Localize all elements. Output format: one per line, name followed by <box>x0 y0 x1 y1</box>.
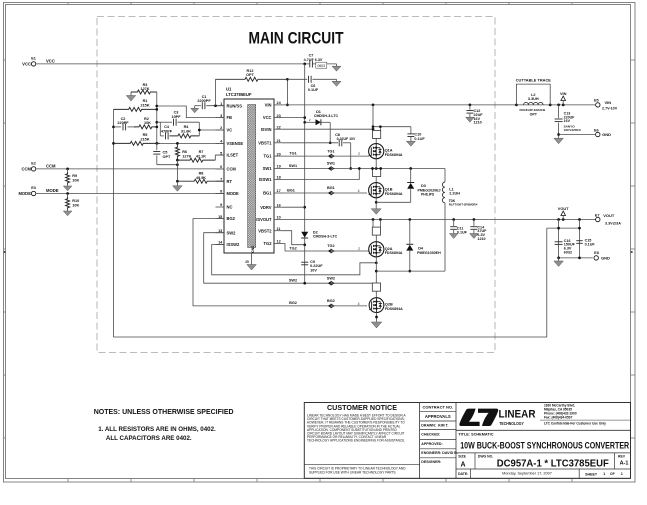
svg-text:2: 2 <box>358 152 360 156</box>
svg-text:VDRV: VDRV <box>260 205 272 210</box>
svg-text:10K: 10K <box>144 121 151 125</box>
ground U1 pin 25 exposed pad <box>245 253 256 270</box>
svg-text:CCM: CCM <box>46 164 56 169</box>
resistor R9 10K <box>66 169 80 185</box>
svg-text:SW2: SW2 <box>327 276 335 280</box>
capacitor C3 10PF <box>171 111 181 126</box>
svg-text:CUTTABLE TRACE: CUTTABLE TRACE <box>516 78 552 83</box>
node E3 MODE terminal <box>18 186 58 196</box>
resistor R12 OPT <box>216 69 288 82</box>
capacitor C16 150UF <box>555 239 576 255</box>
svg-text:VIN: VIN <box>265 103 272 108</box>
svg-text:21: 21 <box>277 139 281 143</box>
svg-text:ENGINEER: DAVID B.: ENGINEER: DAVID B. <box>421 451 457 455</box>
svg-text:VBST2: VBST2 <box>258 228 272 233</box>
svg-text:TG2: TG2 <box>327 244 334 248</box>
wire R6 C5 junction <box>176 159 179 181</box>
svg-text:BG1: BG1 <box>263 191 272 196</box>
transistor Q1A FDS6894A <box>369 138 403 158</box>
svg-text:LTC3785EUF: LTC3785EUF <box>226 92 252 97</box>
svg-text:E7: E7 <box>595 213 600 217</box>
svg-text:19: 19 <box>277 165 281 169</box>
svg-text:10V: 10V <box>310 268 317 272</box>
node SW1 flag <box>328 167 334 171</box>
svg-text:E2: E2 <box>31 161 36 165</box>
resistor R4 31.6K <box>170 125 200 138</box>
svg-text:FDS6894A: FDS6894A <box>385 251 403 255</box>
ground below R10 <box>63 210 72 216</box>
capacitor C8 0.22UF 10V <box>335 133 356 146</box>
svg-text:LTC Confidential-For Customer: LTC Confidential-For Customer Use Only <box>544 421 606 425</box>
svg-text:10K: 10K <box>72 204 79 208</box>
svg-text:VBST1: VBST1 <box>258 140 272 145</box>
svg-text:2: 2 <box>358 247 360 251</box>
svg-text:Fax: (408)434-0507: Fax: (408)434-0507 <box>544 416 573 420</box>
wire BG2 net <box>193 219 367 306</box>
svg-text:SW2: SW2 <box>227 230 237 235</box>
svg-text:SW1: SW1 <box>327 162 335 166</box>
svg-text:VIN: VIN <box>605 100 612 105</box>
svg-text:Monday, September 17, 2007: Monday, September 17, 2007 <box>502 472 552 476</box>
transistor Q1A package box <box>373 130 381 138</box>
svg-text:C2: C2 <box>121 117 126 121</box>
svg-text:25: 25 <box>245 260 249 264</box>
node E7 VOUT terminal <box>595 213 621 226</box>
svg-text:18: 18 <box>277 176 281 180</box>
ground below C14 <box>470 234 479 239</box>
svg-text:C6: C6 <box>311 84 316 88</box>
svg-text:RUN/SS: RUN/SS <box>227 103 243 108</box>
svg-text:8: 8 <box>220 190 222 194</box>
svg-text:C5: C5 <box>163 151 168 155</box>
wire compensation loop <box>157 122 200 136</box>
svg-text:215K: 215K <box>140 138 149 142</box>
svg-text:GND: GND <box>251 245 255 253</box>
svg-text:VC: VC <box>227 128 233 133</box>
svg-text:E8: E8 <box>594 251 599 255</box>
transistor Q2A FDS6894A <box>369 235 403 257</box>
svg-text:BG1: BG1 <box>327 186 335 190</box>
svg-text:BG1: BG1 <box>287 188 295 192</box>
node BG1 flag <box>328 191 334 195</box>
svg-text:13: 13 <box>218 229 222 233</box>
ground below C12 <box>466 117 475 122</box>
svg-text:E6: E6 <box>594 128 599 132</box>
svg-text:GND: GND <box>601 256 610 261</box>
resistor R5 215K <box>114 133 161 145</box>
svg-text:0.1UF: 0.1UF <box>457 231 468 235</box>
svg-text:MODE: MODE <box>18 191 31 196</box>
svg-text:REV: REV <box>618 455 626 459</box>
svg-text:5: 5 <box>220 151 222 155</box>
svg-text:BG2: BG2 <box>327 299 335 303</box>
svg-text:OPT: OPT <box>246 73 254 77</box>
resistor R6 127K <box>175 143 191 160</box>
svg-text:R10: R10 <box>72 199 79 203</box>
svg-text:R6: R6 <box>182 150 187 154</box>
capacitor C1 2200PF <box>195 95 224 109</box>
svg-text:MAIN CIRCUIT: MAIN CIRCUIT <box>249 30 344 48</box>
svg-text:BG2: BG2 <box>289 301 297 305</box>
wire VOUT feedback loop <box>114 228 547 337</box>
wire feedback bus x113.5 <box>112 109 115 337</box>
svg-text:0.1UF: 0.1UF <box>308 88 319 92</box>
svg-text:ALL CAPACITORS ARE 0402.: ALL CAPACITORS ARE 0402. <box>106 435 192 442</box>
capacitor C2 220PF <box>114 117 137 131</box>
svg-text:10K: 10K <box>72 179 79 183</box>
svg-text:E3: E3 <box>31 186 36 190</box>
capacitor C9 0.22UF 10V <box>301 260 323 272</box>
svg-text:DC957A-1 * LTC3785EUF: DC957A-1 * LTC3785EUF <box>497 458 610 470</box>
wire SW2 to L1 <box>376 270 445 272</box>
linear technology logo cell <box>459 403 630 426</box>
ground after C7 <box>332 64 341 71</box>
svg-text:MODE: MODE <box>46 188 59 193</box>
svg-text:SHEET: SHEET <box>585 472 598 476</box>
svg-text:L2: L2 <box>531 93 535 97</box>
wire BG1 net <box>283 186 368 193</box>
svg-text:SUPPLIED FOR USE WITH LINEAR T: SUPPLIED FOR USE WITH LINEAR TECHNOLOGY … <box>309 470 397 474</box>
svg-text:DRAWN:: DRAWN: <box>421 424 436 428</box>
wire Q1A source to SW1 <box>375 159 377 169</box>
svg-text:R7: R7 <box>199 150 204 154</box>
svg-text:R2: R2 <box>144 117 149 121</box>
wire MODE net <box>36 192 224 195</box>
wire Q2B source <box>375 313 378 323</box>
wire TG2 net <box>283 244 370 252</box>
svg-text:U1: U1 <box>226 87 232 92</box>
node VIN terminal <box>560 91 567 105</box>
svg-text:10W BUCK-BOOST SYNCHRONOUS CON: 10W BUCK-BOOST SYNCHRONOUS CONVERTER <box>460 441 630 451</box>
svg-text:R12: R12 <box>247 69 254 73</box>
approvals cell <box>420 405 458 464</box>
wire R12 to VIN pin <box>286 78 289 106</box>
svg-text:R3: R3 <box>143 83 148 87</box>
capacitor C11 0.1UF <box>450 220 467 235</box>
svg-text:VCC: VCC <box>22 61 31 66</box>
svg-text:TG1: TG1 <box>327 149 334 153</box>
svg-text:CUSTOMER NOTICE: CUSTOMER NOTICE <box>327 403 397 412</box>
main circuit dashed boundary box <box>97 17 495 353</box>
resistor R2 10K <box>134 117 157 129</box>
resistor R1 215K <box>114 99 157 111</box>
wire TG1 net <box>283 149 370 156</box>
wire VCC rail <box>36 63 309 65</box>
svg-text:CONTRACT NO.: CONTRACT NO. <box>422 405 453 410</box>
svg-text:BG2: BG2 <box>227 216 236 221</box>
ground below C11 <box>449 234 458 239</box>
notes text <box>94 409 234 442</box>
label 0603 box <box>316 62 327 68</box>
svg-text:220PF: 220PF <box>117 121 129 125</box>
wire C16 branch <box>558 220 560 258</box>
svg-text:TG1: TG1 <box>289 151 296 155</box>
inductor L2 3.3UH <box>519 93 546 117</box>
svg-text:CHECKED:: CHECKED: <box>421 433 440 437</box>
svg-text:VSENSE: VSENSE <box>227 141 244 146</box>
svg-text:DATE:: DATE: <box>458 472 468 476</box>
svg-text:0.1UF: 0.1UF <box>585 242 596 246</box>
ground below C10 <box>406 141 415 146</box>
svg-text:RLF7030T-2R2M3R4: RLF7030T-2R2M3R4 <box>449 203 478 207</box>
ground below Q2B <box>371 322 382 328</box>
svg-text:1: 1 <box>621 472 623 476</box>
wire D1 to VBST1 <box>329 122 332 144</box>
transistor Q2B FDS6894A <box>369 291 403 312</box>
capacitor C6 0.1UF <box>287 76 336 92</box>
wire E6 link <box>559 134 595 136</box>
inductor L1 2.2UH <box>442 169 477 272</box>
svg-text:FDS6894A: FDS6894A <box>385 153 403 157</box>
svg-text:22: 22 <box>277 125 281 129</box>
svg-text:DWG NO.: DWG NO. <box>478 455 493 459</box>
svg-text:LINEAR: LINEAR <box>499 409 536 421</box>
svg-text:16: 16 <box>277 203 281 207</box>
customer notice cell <box>304 403 419 474</box>
title block grid <box>304 403 630 479</box>
svg-text:12: 12 <box>277 240 281 244</box>
transistor Q1B package box <box>371 167 382 176</box>
svg-text:11: 11 <box>277 227 281 231</box>
svg-text:20: 20 <box>277 152 281 156</box>
svg-text:470PF: 470PF <box>161 129 173 133</box>
resistor R7 42.2K <box>177 150 224 162</box>
svg-text:PMEG1030EH: PMEG1030EH <box>417 251 441 255</box>
svg-text:APPROVED:: APPROVED: <box>421 442 442 446</box>
svg-text:C1: C1 <box>202 95 207 99</box>
wire output bottom link <box>557 257 593 260</box>
svg-text:3.3V@3A: 3.3V@3A <box>605 222 621 226</box>
diode D3 PMEG2020EJ <box>376 169 440 203</box>
ground below C1 <box>191 106 199 113</box>
svg-text:215K: 215K <box>140 104 149 108</box>
node E8 GND terminal <box>594 251 610 261</box>
svg-text:4: 4 <box>358 302 360 306</box>
node VOUT terminal <box>558 206 569 220</box>
svg-text:9: 9 <box>220 203 222 207</box>
wire output top link <box>547 227 581 230</box>
wire Q1B source <box>375 198 378 209</box>
diode D2 CMDSH-3-LTC <box>301 230 337 283</box>
svg-text:SIZE: SIZE <box>458 455 466 459</box>
wire Q2A source chain <box>375 257 378 283</box>
node TG2 flag <box>328 249 334 253</box>
svg-text:ISSW2: ISSW2 <box>227 242 240 247</box>
node BG2 flag <box>328 304 334 308</box>
svg-text:6032: 6032 <box>564 251 572 255</box>
svg-text:2: 2 <box>220 126 222 130</box>
svg-text:MODE: MODE <box>227 191 240 196</box>
svg-text:ILSET: ILSET <box>227 153 239 158</box>
svg-text:R1: R1 <box>143 99 148 103</box>
wire ISSW1 net <box>283 167 361 179</box>
svg-text:17: 17 <box>277 189 281 193</box>
wire cuttable trace box <box>516 84 550 105</box>
title cell <box>456 430 631 478</box>
wire C15 branch <box>579 220 581 258</box>
svg-text:KIM T.: KIM T. <box>438 424 449 428</box>
svg-text:TECHNOLOGY APPLICATIONS ENGINE: TECHNOLOGY APPLICATIONS ENGINEERING FOR … <box>307 438 405 442</box>
svg-text:4.7UF 6.3V: 4.7UF 6.3V <box>304 58 323 62</box>
node TG1 flag <box>328 154 334 158</box>
wire RUN/SS to R12 <box>215 79 217 105</box>
node E2 CCM terminal <box>21 161 56 171</box>
wire VCC vertical rail <box>303 64 306 232</box>
svg-text:CMDSH-3-LTC: CMDSH-3-LTC <box>314 114 339 118</box>
transistor Q1B FDS6894A <box>369 177 403 198</box>
svg-text:NOTES: UNLESS OTHERWISE SPECI: NOTES: UNLESS OTHERWISE SPECIFIED <box>94 409 234 416</box>
svg-text:0603: 0603 <box>318 64 326 68</box>
ground below R8 <box>173 181 183 191</box>
capacitor C10 0.1UF <box>407 127 425 142</box>
capacitor C15 0.1UF <box>576 239 595 247</box>
svg-text:0.1UF: 0.1UF <box>414 137 425 141</box>
svg-text:CCM: CCM <box>21 166 31 171</box>
svg-text:E1: E1 <box>31 56 36 60</box>
svg-text:R9: R9 <box>72 174 77 178</box>
node E1 VCC terminal <box>22 56 55 66</box>
svg-text:VOUT: VOUT <box>603 213 615 218</box>
node E5 VIN terminal <box>594 99 618 111</box>
diode D1 CMDSH-3-LTC <box>305 110 339 126</box>
svg-text:PHILIPS: PHILIPS <box>421 193 435 197</box>
capacitor C7 4.7UF 6.3V <box>303 54 336 68</box>
wire SW1 net <box>283 162 446 170</box>
svg-text:CCM: CCM <box>227 167 237 172</box>
svg-text:A-1: A-1 <box>620 461 629 467</box>
transistor Q2A package box <box>372 220 380 236</box>
svg-text:TECHNOLOGY: TECHNOLOGY <box>499 421 524 426</box>
svg-text:3.3UH: 3.3UH <box>528 97 539 101</box>
svg-text:CMDSH-3-LTC: CMDSH-3-LTC <box>313 235 338 239</box>
ground below C16 <box>554 258 564 267</box>
svg-text:VOUT: VOUT <box>558 206 569 211</box>
svg-text:OPT: OPT <box>530 113 538 117</box>
ground below C13 <box>554 138 564 144</box>
transistor Q2B package box <box>372 283 380 291</box>
svg-text:10PF: 10PF <box>171 115 181 119</box>
svg-text:TG2: TG2 <box>264 241 273 246</box>
svg-text:42.2K: 42.2K <box>196 155 206 159</box>
wire VOUT rail <box>283 218 597 221</box>
resistor R10 10K <box>66 194 80 210</box>
svg-text:APPROVALS: APPROVALS <box>425 414 451 419</box>
ground after C6 <box>332 79 341 86</box>
svg-text:FB: FB <box>227 115 233 120</box>
diode D4 PMEG1030EH <box>406 220 441 273</box>
svg-text:0.22UF 10V: 0.22UF 10V <box>337 137 356 141</box>
svg-text:ISVOUT: ISVOUT <box>256 217 272 222</box>
ground for R3 <box>126 92 136 101</box>
svg-text:RT: RT <box>227 179 233 184</box>
wire ISVIN net <box>283 128 375 131</box>
U1 pin numbers and stubs <box>216 101 283 245</box>
svg-text:TG2: TG2 <box>289 246 296 250</box>
svg-text:10: 10 <box>277 216 281 220</box>
svg-text:SW1: SW1 <box>289 164 297 168</box>
svg-text:1: 1 <box>603 472 605 476</box>
op-amp U1 LTC3785EUF body <box>224 87 274 254</box>
svg-text:VCC: VCC <box>263 115 272 120</box>
svg-text:SW1: SW1 <box>263 166 273 171</box>
svg-text:4: 4 <box>358 189 360 193</box>
ground below Q1B <box>371 209 381 215</box>
svg-text:E5: E5 <box>594 99 599 103</box>
svg-text:2.2UH: 2.2UH <box>449 192 460 196</box>
svg-text:16V: 16V <box>564 119 571 123</box>
capacitor C14 47UF <box>470 220 487 242</box>
svg-text:GND: GND <box>602 132 611 137</box>
wire VC pin link <box>198 129 224 132</box>
svg-text:1210: 1210 <box>477 237 485 241</box>
svg-text:SW2: SW2 <box>289 279 297 283</box>
svg-text:VIN: VIN <box>560 91 567 96</box>
svg-text:A: A <box>460 461 465 468</box>
svg-text:ISSW1: ISSW1 <box>259 177 272 182</box>
wire VBST2 net <box>283 231 305 245</box>
capacitor C12 22UF <box>466 105 483 125</box>
svg-text:R8: R8 <box>199 172 204 176</box>
svg-text:NC: NC <box>227 205 233 210</box>
wire FB link <box>157 106 224 118</box>
svg-text:127K: 127K <box>182 155 191 159</box>
svg-text:DO1813P-332HCB: DO1813P-332HCB <box>519 108 546 112</box>
svg-text:16CV220KX: 16CV220KX <box>564 128 582 132</box>
svg-text:R5: R5 <box>143 133 148 137</box>
resistor R8 49.9K <box>176 172 224 184</box>
wire Q1A drain from VIN <box>372 105 411 130</box>
wire C8 to SW1 <box>349 143 352 170</box>
svg-text:C3: C3 <box>174 111 179 115</box>
svg-text:2200PF: 2200PF <box>197 99 211 103</box>
wire ISSW2 net <box>212 245 378 275</box>
wire divider bus x157 <box>155 92 158 145</box>
resistor R3 127K <box>131 83 157 94</box>
svg-text:15: 15 <box>218 215 222 219</box>
svg-text:ISVIN: ISVIN <box>261 127 272 132</box>
node E6 GND terminal <box>594 128 611 137</box>
svg-text:TG1: TG1 <box>264 154 273 159</box>
svg-text:49.9K: 49.9K <box>196 176 206 180</box>
wire VIN rail <box>283 104 596 107</box>
wire VSENSE net <box>160 142 224 145</box>
svg-text:FDS6894A: FDS6894A <box>385 307 403 311</box>
svg-text:1. ALL RESISTORS ARE IN OHMS,: 1. ALL RESISTORS ARE IN OHMS, 0402. <box>98 426 216 433</box>
svg-text:VCC: VCC <box>46 59 55 64</box>
wire SW2 net <box>204 233 373 285</box>
node SW2 flag <box>328 281 334 285</box>
U1 pin names <box>227 103 273 248</box>
title MAIN CIRCUIT <box>249 30 344 48</box>
svg-text:127K: 127K <box>140 87 149 91</box>
wire VCC pin 23 link <box>283 117 305 119</box>
svg-text:FDS6894A: FDS6894A <box>385 192 403 196</box>
svg-text:1210: 1210 <box>474 121 482 125</box>
svg-text:OF: OF <box>610 472 615 476</box>
svg-text:DESIGNER:: DESIGNER: <box>421 460 441 464</box>
label cuttable trace <box>516 78 552 83</box>
wire CCM net <box>36 168 224 171</box>
capacitor C5 OPT <box>153 143 177 164</box>
capacitor C13 220UF <box>555 105 582 138</box>
svg-text:TITLE: SCHEMATIC: TITLE: SCHEMATIC <box>458 432 493 436</box>
svg-text:OPT: OPT <box>163 155 171 159</box>
svg-text:2.7V-10V: 2.7V-10V <box>602 107 618 111</box>
ground below R9 <box>63 185 72 191</box>
capacitor C4 470PF <box>160 125 172 139</box>
svg-text:31.6K: 31.6K <box>181 129 191 133</box>
wire VDRV pin 16 link <box>283 206 305 208</box>
